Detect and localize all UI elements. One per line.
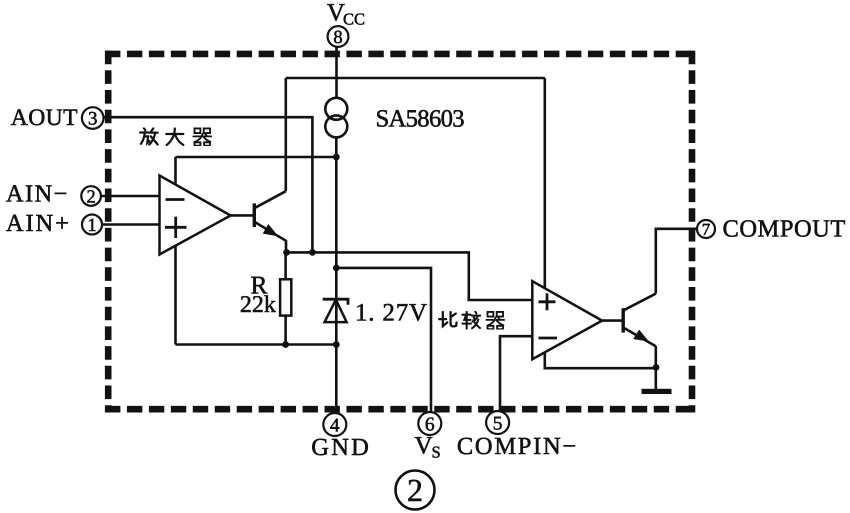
wire COMPOUT from Q2 collector to pin 7 xyxy=(656,229,698,294)
label COMPOUT xyxy=(723,215,846,242)
IC package dashed boundary xyxy=(105,51,695,413)
junction node resistor bottom xyxy=(282,341,289,348)
wire bias drop to Q2 emitter node xyxy=(545,78,656,368)
svg-text:SA58603: SA58603 xyxy=(376,106,465,133)
op-amp U1 (amplifier) xyxy=(160,176,231,255)
svg-text:2: 2 xyxy=(407,472,423,508)
pin 7 circle xyxy=(697,220,715,239)
junction node Q2 emitter xyxy=(653,364,660,371)
resistor R1 22k xyxy=(280,279,291,315)
svg-text:5: 5 xyxy=(493,413,503,434)
zener diode VR1 1.27V xyxy=(323,299,348,322)
svg-text:AIN−: AIN− xyxy=(6,180,69,207)
junction node Q1 emitter xyxy=(283,249,290,256)
label comparator Chinese bi xyxy=(439,312,456,326)
junction node current source output xyxy=(333,154,340,161)
svg-text:2: 2 xyxy=(86,187,95,207)
wire U2 output to Q2 base xyxy=(602,319,623,322)
svg-text:22k: 22k xyxy=(240,292,276,318)
comparator U2 xyxy=(532,281,602,359)
pin 5 circle xyxy=(486,411,509,434)
pin 2 circle xyxy=(81,186,101,207)
wire VCC pin 8 to current source xyxy=(335,46,338,98)
wire current source output to node xyxy=(335,137,338,157)
transistor Q2 xyxy=(623,294,656,347)
pin 1 circle xyxy=(82,215,102,236)
svg-text:S: S xyxy=(432,443,441,462)
ground xyxy=(642,389,672,394)
wire feedback top horizontal xyxy=(176,156,337,159)
label AOUT xyxy=(11,105,78,131)
label VS xyxy=(415,433,441,462)
label GND xyxy=(311,434,371,461)
wire Q1 collector vertical xyxy=(284,78,287,191)
svg-text:8: 8 xyxy=(333,28,342,48)
label comparator Chinese qi xyxy=(486,312,504,329)
svg-text:V: V xyxy=(415,433,433,460)
wire AIN- stub xyxy=(101,195,160,198)
figure number circled 2 xyxy=(396,471,435,510)
wire U1 output to Q1 base xyxy=(231,214,254,217)
svg-text:1. 27V: 1. 27V xyxy=(355,300,428,327)
svg-text:7: 7 xyxy=(702,220,711,239)
label VCC xyxy=(327,0,365,29)
svg-text:CC: CC xyxy=(343,10,365,29)
wire resistor top xyxy=(284,252,287,279)
transistor Q1 xyxy=(254,191,286,252)
wire top rail xyxy=(286,77,545,80)
wire comparator minus input from pin 5 xyxy=(500,336,532,411)
pin 3 circle xyxy=(82,107,104,129)
label 22k xyxy=(240,292,276,318)
junction node zener bottom xyxy=(333,341,340,348)
label COMPIN- xyxy=(457,433,578,460)
wire bottom ground rail xyxy=(176,343,337,346)
svg-text:3: 3 xyxy=(88,109,98,130)
junction node VS tap xyxy=(333,265,340,272)
svg-text:COMPIN−: COMPIN− xyxy=(457,433,578,460)
label amplifier Chinese da xyxy=(166,128,183,145)
svg-text:AIN+: AIN+ xyxy=(6,210,71,237)
junction node AOUT drop xyxy=(309,249,316,256)
svg-text:AOUT: AOUT xyxy=(11,105,78,131)
current source I1 xyxy=(325,98,347,138)
label AIN+ xyxy=(6,210,71,237)
label R xyxy=(251,270,268,299)
label AIN- xyxy=(6,180,69,207)
label amplifier Chinese fang xyxy=(140,128,158,144)
wire Q2 emitter to ground xyxy=(654,346,657,389)
pin 4 circle xyxy=(323,413,346,436)
wire left feedback vertical xyxy=(174,157,177,345)
svg-text:GND: GND xyxy=(311,434,371,461)
wire emitter node rail to comparator plus input xyxy=(287,252,533,300)
wire zener branch vertical to GND pin xyxy=(335,157,338,413)
label SA58603 xyxy=(376,106,465,133)
svg-text:1: 1 xyxy=(87,216,96,236)
label 1.27V xyxy=(355,300,428,327)
wire VS tap xyxy=(336,268,431,412)
label comparator Chinese jiao xyxy=(462,312,480,329)
svg-text:COMPOUT: COMPOUT xyxy=(723,215,846,242)
wire AOUT from pin 3 xyxy=(104,117,313,252)
wire resistor bottom xyxy=(284,316,287,345)
label amplifier Chinese qi xyxy=(193,128,211,145)
pin 6 circle xyxy=(418,412,441,435)
wire AIN+ stub xyxy=(102,223,160,226)
pin 8 circle xyxy=(328,26,349,48)
